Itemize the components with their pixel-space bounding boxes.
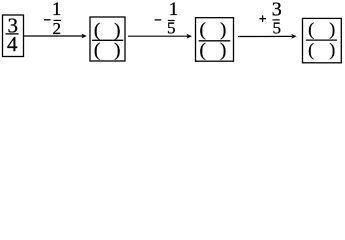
label L3 denominator 5 <box>272 19 281 38</box>
arrow A2 shaft <box>128 35 188 37</box>
label L2 fraction bar <box>168 20 175 22</box>
svg-text:): ) <box>329 39 335 59</box>
svg-text:): ) <box>220 19 226 40</box>
box B4 denominator blank parentheses <box>308 39 335 59</box>
label L3 fraction bar <box>273 19 280 21</box>
box B1 (start value) <box>3 15 24 57</box>
label L1 fraction bar <box>54 19 62 21</box>
svg-text:(: ( <box>308 39 314 59</box>
label L1 minus sign <box>44 19 51 21</box>
svg-text:): ) <box>114 20 120 41</box>
arrow A1 shaft <box>24 35 82 37</box>
svg-text:): ) <box>329 19 335 40</box>
svg-text:5: 5 <box>167 19 176 38</box>
svg-text:): ) <box>220 40 226 61</box>
svg-text:(: ( <box>200 40 206 61</box>
fraction 3/4 bar <box>6 33 19 35</box>
label L2 minus sign <box>155 19 162 21</box>
arrow A2 head <box>187 34 192 39</box>
svg-text:3: 3 <box>272 0 282 21</box>
svg-text:): ) <box>114 40 120 61</box>
svg-text:1: 1 <box>52 0 62 20</box>
box B2 denominator blank parentheses <box>94 40 121 61</box>
box B2 fraction bar <box>92 39 123 41</box>
box B3 fraction bar <box>199 40 231 42</box>
box B3 denominator blank parentheses <box>200 40 227 61</box>
box B3 (second answer) <box>196 18 234 62</box>
svg-text:(: ( <box>94 20 100 41</box>
svg-text:(: ( <box>200 19 206 40</box>
svg-text:5: 5 <box>272 19 281 38</box>
fraction 3/4 numerator 3 <box>8 14 19 38</box>
arrow A3 head <box>291 34 296 39</box>
box B4 (final answer) <box>303 18 342 62</box>
box B4 numerator blank parentheses <box>308 19 335 40</box>
svg-text:2: 2 <box>53 19 62 38</box>
box B3 numerator blank parentheses <box>200 19 227 40</box>
arrow A1 head <box>81 34 86 39</box>
label L2 denominator 5 <box>167 19 176 38</box>
box B2 (first answer) <box>90 17 125 61</box>
svg-text:4: 4 <box>7 32 18 56</box>
box B2 numerator blank parentheses <box>94 20 121 41</box>
fraction 3/4 denominator 4 <box>7 32 18 56</box>
svg-text:(: ( <box>94 40 100 61</box>
box B4 fraction bar <box>306 39 337 41</box>
svg-text:(: ( <box>308 19 314 40</box>
label L3 numerator 3 <box>272 0 282 21</box>
arrow A3 shaft <box>238 35 292 37</box>
svg-text:1: 1 <box>169 0 179 20</box>
label L1 denominator 2 <box>53 19 62 38</box>
label L1 numerator 1 <box>52 0 62 20</box>
label L3 plus sign <box>259 15 266 22</box>
label L2 numerator 1 <box>169 0 179 20</box>
